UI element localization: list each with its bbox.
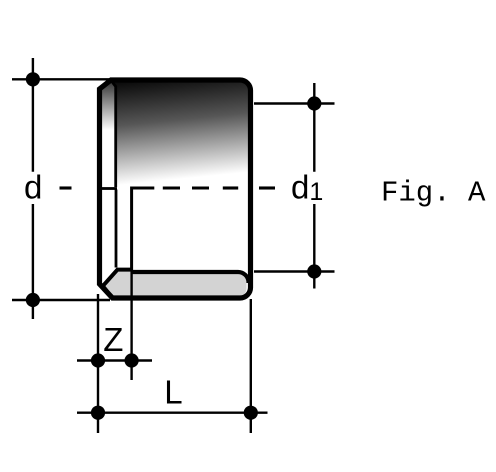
inner bore edge line (lower left) <box>115 190 118 268</box>
dimension d: bottom dot <box>26 293 40 307</box>
fitting body interior (white base) <box>100 80 251 298</box>
dimension d: vertical line upper segment <box>32 58 34 172</box>
body upper-half gradient shading <box>96 78 256 240</box>
dimension d1: bottom extension line <box>254 270 335 272</box>
socket wall top edge (thick) <box>103 270 132 286</box>
dimension d1: bottom dot <box>307 264 321 278</box>
dimension d: bottom extension line <box>12 299 110 301</box>
dimension d1: top extension line <box>254 102 335 104</box>
dimension L: horizontal line <box>77 412 268 414</box>
centerline dash 3 <box>223 186 238 189</box>
centerline dash 1 <box>163 186 180 189</box>
svg-text:Fig. A: Fig. A <box>381 177 486 210</box>
inner chamfer edge line (upper left) <box>112 81 116 187</box>
svg-text:L: L <box>164 374 182 411</box>
dimension d1: vertical line lower segment <box>313 204 315 289</box>
centerline dash (outside right) <box>259 186 275 189</box>
dimension d: vertical line lower segment <box>32 204 34 319</box>
svg-text:d: d <box>24 169 42 206</box>
dimension d: top extension line <box>12 78 110 80</box>
svg-text:Z: Z <box>103 321 123 358</box>
body outline <box>100 80 251 298</box>
dimension L: left dot <box>91 406 105 420</box>
chamfer facet shading (upper left) <box>100 80 116 188</box>
socket wall cross-section (grey band, lower half) <box>103 270 247 298</box>
dimension Z: left extension line <box>97 294 99 433</box>
dimension d: top dot <box>26 72 40 86</box>
centerline dash 2 <box>192 186 209 189</box>
dimension d1: vertical line upper segment <box>313 83 315 172</box>
socket mouth tick (at centerline, left) <box>102 187 117 190</box>
bore wall top edge (right of socket shoulder) <box>132 272 249 283</box>
dimension Z: left dot <box>91 353 105 367</box>
dimension Z: horizontal line <box>77 359 152 361</box>
socket depth line through wall section <box>130 270 132 297</box>
dimension Z: right extension line <box>130 301 132 381</box>
dimension L: right dot <box>244 406 258 420</box>
centerline dash (outside left) <box>60 186 72 189</box>
dimension L: right extension line <box>250 299 252 433</box>
socket wall lower-left chamfer edge <box>103 286 112 297</box>
socket depth line with corner dash <box>132 188 155 270</box>
dimension Z: right dot <box>125 353 139 367</box>
dimension d1: top dot <box>307 96 321 110</box>
